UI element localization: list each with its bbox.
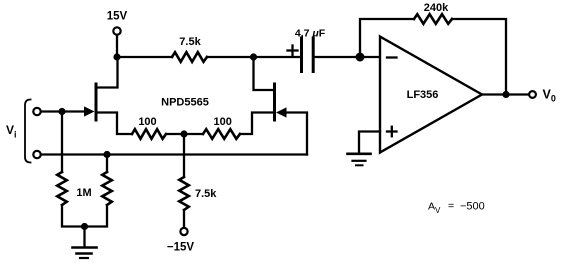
input bracket — [25, 100, 31, 163]
svg-text:4.7 μF: 4.7 μF — [295, 28, 326, 40]
wire feedback right vertical — [452, 19, 506, 95]
wire between 100s — [166, 133, 203, 135]
wire rail right segment — [207, 56, 300, 58]
wire source node down — [183, 134, 185, 177]
terminal 15V — [113, 27, 120, 34]
wire ground stem — [83, 227, 85, 248]
wire rail left segment — [117, 56, 172, 58]
resistor R2 100 (left source) — [132, 129, 166, 139]
transistor Q1 left JFET — [84, 57, 132, 134]
wire feedback left vertical — [360, 19, 414, 57]
wire input top — [42, 110, 88, 112]
wire 1M left top — [61, 112, 63, 173]
svg-text:100: 100 — [214, 116, 232, 128]
junction ground node — [81, 223, 88, 230]
terminal Vo — [529, 91, 536, 98]
junction at Q2 drain node — [250, 53, 257, 60]
terminal input bottom — [33, 151, 40, 158]
junction at 15V rail — [113, 53, 120, 60]
junction inverting node — [356, 53, 365, 62]
junction output feedback — [502, 91, 509, 98]
svg-text:7.5k: 7.5k — [195, 188, 217, 200]
junction source resistors — [180, 130, 187, 137]
svg-text:NPD5565: NPD5565 — [161, 97, 209, 109]
wire output — [482, 93, 528, 95]
op-amp U1 LF356 — [380, 37, 482, 153]
terminal input top — [33, 108, 40, 115]
polarity plus sign — [288, 46, 298, 56]
resistor R5 1M left — [57, 172, 67, 205]
svg-text:=: = — [448, 200, 454, 212]
wire tail to -15V — [183, 210, 185, 228]
resistor R7 240k feedback — [414, 14, 452, 24]
resistor R6 1M right — [102, 172, 112, 205]
junction input top / 1M left — [58, 108, 65, 115]
wire noninverting input to ground — [359, 132, 380, 153]
wire to op-amp minus input — [360, 56, 379, 58]
terminal -15V — [180, 228, 187, 235]
wire 1M left bottom — [62, 205, 85, 227]
wire 1M right top — [106, 155, 108, 173]
ground input bias — [73, 248, 97, 259]
wire cap to inverting node — [315, 56, 360, 58]
wire bottom input to Q2 gate — [287, 113, 307, 155]
wire 15V to rail — [116, 35, 118, 57]
resistor R1 7.5k (drain load) — [172, 52, 207, 62]
transistor Q2 right JFET — [240, 57, 287, 134]
svg-text:−15V: −15V — [167, 242, 195, 254]
wire input bottom — [42, 153, 308, 155]
svg-text:LF356: LF356 — [407, 89, 439, 101]
svg-text:15V: 15V — [107, 11, 128, 23]
svg-text:100: 100 — [138, 116, 156, 128]
resistor R4 7.5k (tail) — [179, 177, 189, 210]
capacitor C1 4.7uF — [302, 38, 314, 72]
ground op-amp plus — [348, 154, 371, 166]
svg-text:7.5k: 7.5k — [179, 36, 201, 48]
junction input bottom / 1M right — [103, 151, 110, 158]
svg-text:1M: 1M — [76, 187, 91, 199]
svg-text:−500: −500 — [460, 201, 485, 213]
wire 1M right bottom — [85, 205, 108, 227]
resistor R3 100 (right source) — [203, 129, 240, 139]
svg-text:240k: 240k — [424, 2, 449, 14]
